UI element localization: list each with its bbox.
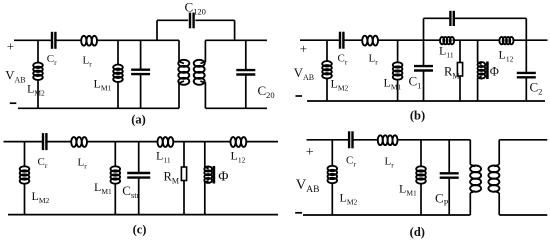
circuit (a) secondary top wire [205,39,267,41]
circuit (b) plus terminal [300,41,307,56]
capacitor C_1 (b) [414,40,433,101]
resistor R_M (b) [457,40,462,101]
capacitor C_2 (b) [517,40,536,101]
circuit (a) plus terminal [7,39,14,54]
label L_M2 (d) [340,191,358,207]
caption (a) [131,113,146,127]
circuit (d) minus terminal [295,212,302,214]
svg-text:LM2: LM2 [331,77,349,93]
inductor L_11 (c) [158,137,174,147]
label L_M1 (b) [384,76,402,92]
svg-text:Lr: Lr [83,55,93,69]
label Phi (c) [218,170,228,185]
caption (d) [410,225,425,239]
circuit (a) bottom wire primary [18,107,179,109]
svg-text:(a): (a) [131,113,146,127]
svg-text:Φ: Φ [218,170,228,185]
svg-text:C20: C20 [258,83,275,100]
svg-text:CP: CP [435,191,449,208]
svg-text:C1: C1 [409,74,422,91]
core bar Phi (b) [486,62,489,80]
capacitor C_r (c) [43,133,46,150]
source V_AB (d) [296,177,320,195]
inductor L_M1 (c) [111,142,121,215]
source V_AB (b) [294,65,315,82]
svg-text:L12: L12 [499,48,514,64]
svg-text:Lr: Lr [369,53,379,67]
label L_r (c) [78,157,88,171]
inductor L_M1 (a) [113,40,123,108]
capacitor C_120 (a) [190,13,194,29]
capacitor C_str (c) [127,142,150,215]
capacitor (unlabeled, a) [131,40,150,108]
inductor L_M1 (d) [416,140,426,215]
source V_AB (a) [5,69,25,85]
circuit (d) output port top wire [499,139,547,141]
svg-text:LM1: LM1 [94,77,112,93]
inductor L_11 (b) [440,37,454,44]
inductor L_r (b) [362,36,378,46]
svg-text:L11: L11 [156,149,171,165]
label C_r (c) [38,156,48,170]
circuit (d) plus terminal [306,145,314,160]
svg-text:L11: L11 [439,44,454,60]
inductor L_M1 (b) [393,40,403,101]
circuit (d) top wire [307,139,471,141]
label C_r (a) [47,53,57,67]
caption (b) [410,109,425,123]
svg-text:+: + [300,41,307,56]
magnetizing inductor Phi (c) [204,142,212,215]
circuit (b) top wire [300,39,548,41]
transformer secondary winding (a) [194,40,206,108]
inductor L_12 (c) [231,137,247,147]
label Phi (b) [490,65,499,79]
circuit (c) top wire [4,141,279,143]
circuit (a) top wire [14,39,179,41]
transformer secondary winding (d) [488,140,499,215]
label R_M (c) [164,170,179,186]
svg-text:Cr: Cr [338,53,348,67]
svg-text:(b): (b) [410,109,425,123]
inductor L_M2 (d) [328,140,338,215]
circuit (b) minus terminal [296,95,303,97]
svg-text:Cr: Cr [38,156,48,170]
inductor L_M2 (b) [322,40,332,101]
svg-text:C2: C2 [530,80,543,97]
svg-text:Lr: Lr [78,157,88,171]
capacitor C_20 (a) [236,40,255,108]
svg-text:LM1: LM1 [94,180,112,196]
label L_M1 (a) [94,77,112,93]
bypass wire right (b) [455,18,526,40]
label L_12 (c) [231,149,246,165]
circuit (a) bottom wire secondary [205,107,267,109]
capacitor C_r (a) [52,32,55,49]
label C_2 (b) [530,80,543,97]
bypass wire C120 right (a) [195,20,234,40]
label C_120 (a) [185,0,206,17]
svg-text:L12: L12 [231,149,246,165]
label L_r (a) [83,55,93,69]
label L_11 (c) [156,149,171,165]
caption (c) [133,223,147,237]
inductor L_r (c) [71,137,87,147]
inductor L_r (d) [378,135,398,145]
circuit (c) bottom wire [8,214,278,216]
circuit (a) minus terminal [10,102,16,104]
inductor L_12 (b) [499,37,513,44]
svg-text:C120: C120 [185,0,206,17]
magnetizing inductor Phi (b) [478,40,486,101]
label L_M2 (c) [32,189,50,205]
svg-text:VAB: VAB [5,69,25,85]
circuit (b) bottom wire [307,100,545,102]
label L_M1 (d) [399,182,417,198]
label L_11 (b) [439,44,454,60]
svg-text:Cr: Cr [346,155,356,169]
label C_r (b) [338,53,348,67]
svg-text:Φ: Φ [490,65,499,79]
svg-text:LM2: LM2 [32,189,50,205]
inductor L_r (a) [81,36,97,46]
label L_M2 (b) [331,77,349,93]
svg-text:VAB: VAB [296,177,320,195]
svg-text:LM2: LM2 [340,191,358,207]
label L_M1 (c) [94,180,112,196]
label L_12 (b) [499,48,514,64]
label L_r (b) [369,53,379,67]
capacitor C_P (d) [440,140,459,215]
svg-text:LM1: LM1 [399,182,417,198]
capacitor C_r (b) [340,32,343,49]
svg-text:+: + [306,145,314,160]
svg-text:(d): (d) [410,225,425,239]
resistor R_M (c) [181,142,186,215]
transformer primary winding (a) [178,40,189,108]
svg-text:VAB: VAB [294,65,315,82]
svg-text:RM: RM [164,170,179,186]
svg-text:LM2: LM2 [27,82,45,98]
svg-text:Cstr: Cstr [122,183,139,200]
label R_M (b) [444,65,459,81]
label C_20 (a) [258,83,275,100]
bypass wire C120 left (a) [157,19,188,21]
label C_P (d) [435,191,449,208]
label L_M2 (a) [27,82,45,98]
transformer primary winding (d) [470,140,481,215]
circuit (d) bottom wire [303,214,470,216]
label C_r (d) [346,155,356,169]
wire riser to bypass cap left (b) [423,18,425,40]
label C_1 (b) [409,74,422,91]
bypass capacitor (b) [450,11,453,26]
bypass wire left (b) [424,17,450,19]
label L_r (d) [385,156,395,170]
wire riser to C120 (a) [156,20,158,40]
label C_str (c) [122,183,139,200]
capacitor C_r (d) [349,131,352,148]
inductor L_M2 (a) [33,40,43,108]
circuit (d) output port bottom wire [499,214,547,216]
inductor L_M2 (c) [20,142,30,215]
core bar Phi (c) [213,166,216,184]
svg-text:(c): (c) [133,223,147,237]
svg-text:+: + [7,39,14,54]
svg-text:Lr: Lr [385,156,395,170]
svg-text:Cr: Cr [47,53,57,67]
